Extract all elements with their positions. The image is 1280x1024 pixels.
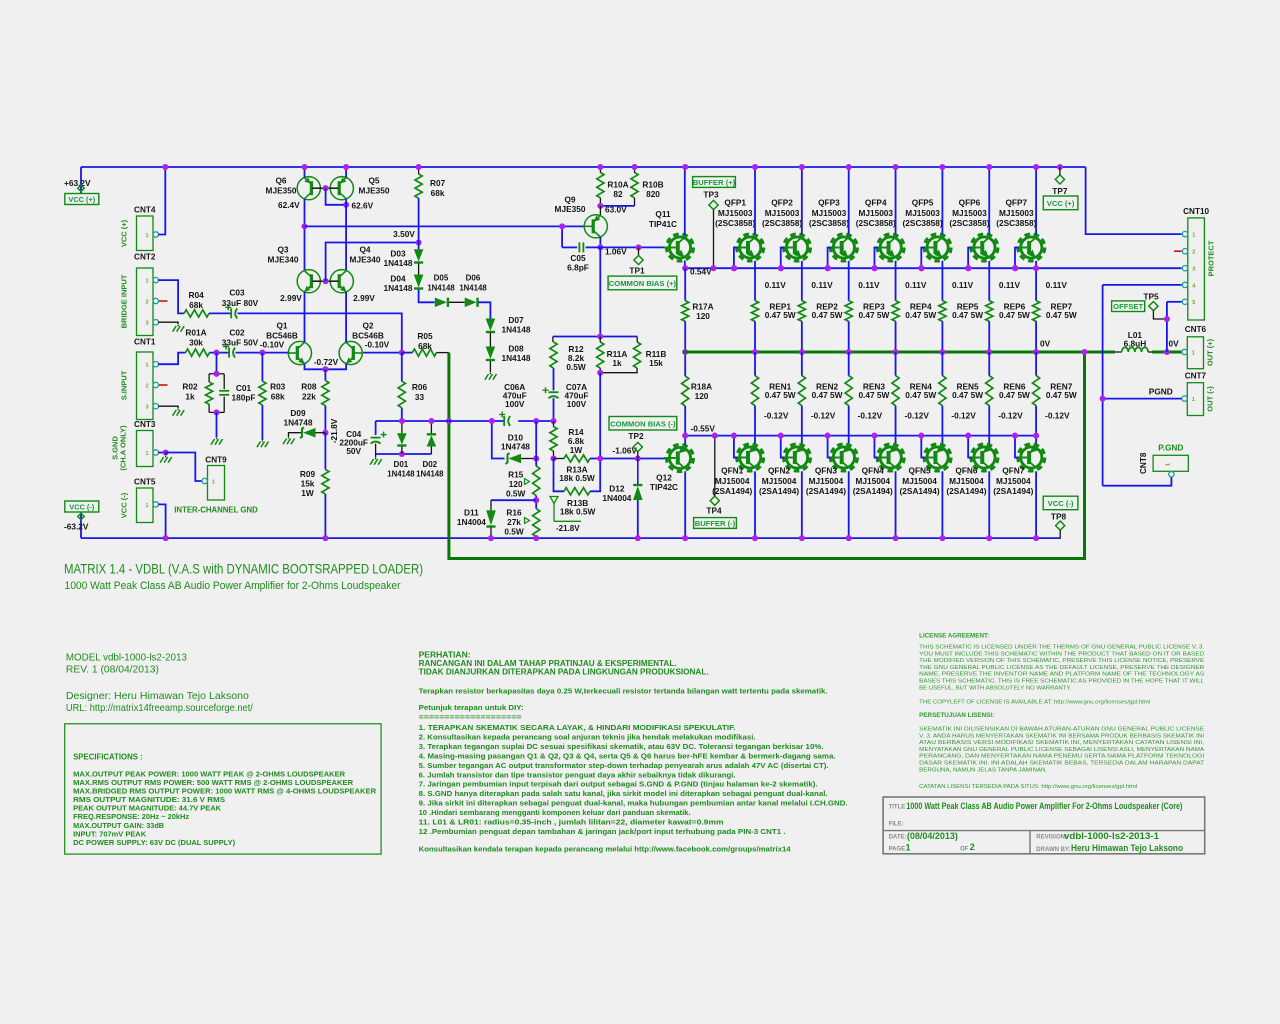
title block: [883, 797, 1205, 854]
svg-text:VCC (+): VCC (+): [68, 195, 95, 204]
ground R03: [257, 442, 261, 448]
svg-text:QFP3: QFP3: [818, 198, 840, 208]
junction D10 left: [489, 418, 495, 424]
resistor REP2: [798, 301, 805, 322]
svg-text:62.4V: 62.4V: [278, 200, 300, 210]
resistor REN4: [892, 376, 899, 406]
wire QFP5 base stub: [921, 248, 925, 269]
svg-text:0.11V: 0.11V: [858, 280, 880, 290]
wire QFP2 base stub: [781, 248, 785, 269]
svg-text:REVISION:: REVISION:: [1036, 835, 1067, 841]
svg-text:MJ15004: MJ15004: [949, 476, 984, 486]
svg-text:+63.2V: +63.2V: [64, 178, 91, 188]
svg-text:0.47 5W: 0.47 5W: [952, 310, 983, 320]
wire QFN2 collector: [801, 471, 803, 538]
svg-text:68k: 68k: [189, 300, 203, 310]
svg-text:1N4148: 1N4148: [501, 353, 530, 363]
capacitor C03: [209, 312, 231, 314]
resistor R13B: [564, 488, 590, 495]
junction CNT3 ground node: [163, 449, 169, 455]
wire REN2 to QFN2: [801, 406, 803, 445]
svg-text:15k: 15k: [301, 479, 315, 489]
junction QFP1 base: [731, 265, 737, 271]
svg-text:MJE350: MJE350: [555, 204, 586, 214]
junction QFN4 base: [871, 433, 877, 439]
wire QFP1 emitter: [754, 261, 756, 301]
svg-text:(2SA1494): (2SA1494): [712, 486, 752, 496]
svg-text:4. Masing-masing pasangan Q1 &: 4. Masing-masing pasangan Q1 & Q2, Q3 & …: [419, 751, 836, 760]
svg-text:V. 3. ANDA HARUS MENYERTAKAN: V. 3. ANDA HARUS MENYERTAKAN SKEMATIK IN…: [919, 733, 1204, 739]
junction Q9 emitter node: [597, 203, 603, 209]
svg-text:MJ15003: MJ15003: [999, 208, 1034, 218]
wire QFP2 emitter: [801, 261, 803, 301]
svg-text:D09: D09: [290, 408, 306, 418]
zener D10: [509, 454, 522, 464]
resistor R05: [412, 349, 436, 356]
svg-text:TITLE: TITLE: [889, 805, 906, 811]
connector CNT7: [1187, 383, 1203, 416]
svg-text:VCC (+): VCC (+): [1047, 199, 1075, 208]
capacitor C05: [562, 246, 577, 248]
svg-text:100V: 100V: [567, 399, 587, 409]
svg-text:-0.12V: -0.12V: [998, 411, 1023, 421]
svg-text:MJ15004: MJ15004: [809, 476, 844, 486]
wire QFN7 collector: [1035, 471, 1037, 538]
svg-text:33: 33: [415, 392, 425, 402]
wire QFN5 collector: [941, 471, 943, 538]
netlabel OFFSET: [1112, 301, 1145, 312]
svg-text:1N4148: 1N4148: [427, 284, 455, 293]
connector CNT9: [208, 466, 225, 501]
svg-text:D03: D03: [390, 249, 406, 259]
svg-text:1N4748: 1N4748: [283, 418, 312, 428]
testpoint TP7: [1055, 175, 1064, 184]
svg-text:18k 0.5W: 18k 0.5W: [560, 507, 596, 517]
svg-text:D05: D05: [434, 274, 449, 283]
capacitor C07A: [553, 368, 555, 390]
junction rail bottom col4: [893, 535, 899, 541]
svg-text:Konsultasikan kendala terapan: Konsultasikan kendala terapan kepada per…: [419, 844, 792, 853]
svg-text:(2SA1494): (2SA1494): [853, 486, 893, 496]
svg-text:6.8uH: 6.8uH: [1124, 338, 1147, 348]
svg-text:R18A: R18A: [691, 382, 712, 392]
wire QFP1 base stub: [734, 248, 738, 269]
junction R11A top: [597, 333, 603, 339]
wire VCC- bottom rail: [81, 537, 1061, 539]
svg-text:D12: D12: [609, 483, 625, 493]
svg-text:TIDAK DIANJURKAN DITERAPKAN PA: TIDAK DIANJURKAN DITERAPKAN PADA LINGKUN…: [419, 667, 709, 676]
wire QFN5 base stub: [921, 436, 925, 458]
ground CNT1 pin3: [173, 410, 177, 416]
svg-text:1: 1: [212, 479, 215, 485]
svg-text:1W: 1W: [570, 445, 583, 455]
svg-text:2.99V: 2.99V: [280, 293, 302, 303]
wire L01 to CNT6: [1152, 351, 1182, 354]
wire QFP4 emitter: [895, 261, 897, 301]
wire REN2 top: [801, 352, 803, 376]
svg-text:D02: D02: [422, 460, 437, 469]
svg-text:-21.8V: -21.8V: [329, 418, 339, 443]
svg-text:C01: C01: [236, 383, 252, 393]
wire R15 column: [535, 421, 537, 466]
svg-text:PAGE: PAGE: [889, 847, 906, 853]
wire mirror to Q9 base: [305, 225, 584, 227]
svg-text:1k: 1k: [612, 358, 622, 368]
wire R16 to rail: [535, 537, 537, 539]
svg-text:10 .Hindari sembarang menggant: 10 .Hindari sembarang mengganti komponen…: [419, 808, 691, 817]
ground CNT2 pin3: [173, 326, 177, 332]
junction mirror out: [301, 223, 307, 229]
junction rail bottom col3: [846, 535, 852, 541]
junction Q12 emitter bus: [682, 433, 688, 439]
junction column 6 0V: [986, 349, 992, 355]
resistor REP5: [939, 301, 946, 322]
wire R14 leads: [553, 421, 555, 427]
junction R11 bottom: [597, 370, 603, 376]
junction Q9 collector node: [597, 244, 603, 250]
svg-text:BUFFER (-): BUFFER (-): [695, 519, 736, 528]
junction rail top col1: [752, 164, 758, 170]
svg-text:-0.72V: -0.72V: [314, 357, 339, 367]
netlabel BUFFER +: [693, 177, 736, 188]
svg-text:NAME, PRESERVE THE INVENTOR: NAME, PRESERVE THE INVENTOR NAME AND PLA…: [919, 672, 1204, 678]
svg-text:VCC (-): VCC (-): [69, 503, 95, 512]
svg-text:120: 120: [696, 311, 710, 321]
resistor REN1: [751, 376, 758, 406]
svg-text:5. Sumber tegangan AC output t: 5. Sumber tegangan AC output transformat…: [419, 761, 829, 770]
svg-text:0.47 5W: 0.47 5W: [812, 390, 843, 400]
wire Q12 emitter: [684, 436, 686, 445]
wire REN4 top: [895, 352, 897, 376]
transistor QFN6: [974, 447, 995, 468]
svg-text:15k: 15k: [649, 358, 663, 368]
wire R06 bottom: [401, 408, 403, 421]
svg-text:QFN7: QFN7: [1002, 465, 1025, 475]
svg-text:FILE:: FILE:: [889, 822, 904, 828]
junction L01 out: [1164, 349, 1170, 355]
wire QFP3 emitter: [848, 261, 850, 301]
svg-text:3: 3: [145, 405, 148, 411]
testpoint TP4: [710, 496, 719, 505]
wire VAS to R11A: [599, 247, 601, 336]
wire CNT2 pin3 to ground: [158, 322, 178, 324]
junction TP4 bus: [712, 433, 718, 439]
power flag bottom-left: [78, 513, 84, 519]
svg-text:0.5W: 0.5W: [506, 489, 526, 499]
resistor REP3: [845, 301, 852, 322]
svg-text:1: 1: [1166, 463, 1172, 466]
wire QFP3 collector: [848, 167, 850, 234]
wire CNT4 pin1 to rail: [158, 167, 165, 235]
resistor R03: [259, 381, 266, 405]
svg-text:1: 1: [1192, 350, 1195, 356]
transistor Q9: [584, 215, 607, 238]
junction rail top col6: [986, 164, 992, 170]
transistor QFN1: [740, 447, 761, 468]
wire Q4 emitter to Q2 collector: [345, 292, 347, 342]
diode D05: [435, 298, 447, 308]
testpoint TP2: [633, 442, 642, 451]
svg-text:R10B: R10B: [642, 180, 663, 190]
svg-text:CNT8: CNT8: [1139, 452, 1148, 474]
junction TP5 net: [1164, 316, 1170, 322]
wire QFN6 base stub: [968, 436, 972, 458]
wire R11 node down: [599, 373, 601, 459]
svg-text:6.8pF: 6.8pF: [567, 263, 589, 273]
svg-text:THE COPYLEFT OF LICENSE IS AVA: THE COPYLEFT OF LICENSE IS AVAILABLE AT:…: [919, 699, 1150, 705]
svg-text:(2SC3858): (2SC3858): [856, 218, 896, 228]
svg-text:1: 1: [1192, 233, 1195, 239]
svg-text:0.11V: 0.11V: [765, 280, 787, 290]
svg-text:R04: R04: [188, 290, 204, 300]
svg-text:22k: 22k: [302, 392, 316, 402]
junction QFP5 base: [918, 265, 924, 271]
junction rail bottom col5: [939, 535, 945, 541]
wire REP1 to 0V bus: [754, 321, 756, 352]
svg-text:MJ15004: MJ15004: [715, 476, 750, 486]
svg-text:9. Jika sirkit ini diterapkan: 9. Jika sirkit ini diterapkan sebagai pe…: [419, 799, 848, 808]
wire QFP5 collector: [941, 167, 943, 234]
connector CNT10: [1188, 218, 1205, 320]
svg-text:PGND: PGND: [1149, 387, 1173, 397]
svg-text:8. S.GND hanya diterapkan pada: 8. S.GND hanya diterapkan pada salah sat…: [419, 789, 828, 798]
wire Q3 Q4 base tie: [312, 280, 338, 282]
transistor QFN3: [833, 447, 854, 468]
svg-text:Q9: Q9: [564, 195, 575, 205]
wire C01 ground stem: [216, 412, 218, 437]
wire QFP2 collector: [801, 167, 803, 234]
svg-text:0.11V: 0.11V: [905, 280, 927, 290]
wire QFP1 collector: [754, 167, 756, 234]
junction signal gnd at column: [550, 418, 556, 424]
svg-text:0.11V: 0.11V: [999, 280, 1021, 290]
wire REN6 top: [988, 352, 990, 376]
svg-text:68k: 68k: [431, 188, 445, 198]
svg-text:120: 120: [695, 391, 709, 401]
wire R10 join: [599, 198, 601, 206]
wire QFN6 collector: [988, 471, 990, 538]
svg-text:BRIDGE INPUT: BRIDGE INPUT: [120, 274, 129, 328]
transistor QFN4: [880, 447, 901, 468]
svg-text:(2SC3858): (2SC3858): [762, 218, 802, 228]
svg-text:MATRIX 1.4 - VDBL (V.A.S with: MATRIX 1.4 - VDBL (V.A.S with DYNAMIC BO…: [64, 561, 423, 577]
svg-text:2: 2: [145, 299, 148, 305]
svg-text:MJ15003: MJ15003: [952, 208, 987, 218]
svg-text:0V: 0V: [1169, 338, 1180, 348]
junction QFN5 base: [918, 433, 924, 439]
junction rail bottom col7: [1033, 535, 1039, 541]
junction column 1 0V: [752, 349, 758, 355]
junction QFN1 base: [731, 433, 737, 439]
svg-text:820: 820: [646, 189, 660, 199]
svg-text:REV. 1 (08/04/2013): REV. 1 (08/04/2013): [66, 664, 159, 676]
svg-text:3: 3: [1192, 267, 1195, 273]
svg-text:Petunjuk terapan untuk DIY:: Petunjuk terapan untuk DIY:: [419, 703, 524, 712]
netlabel COMMON BIAS +: [608, 276, 677, 290]
svg-text:CNT4: CNT4: [134, 206, 156, 215]
svg-text:(2SC3858): (2SC3858): [996, 218, 1036, 228]
ground R02 C01: [211, 439, 215, 445]
svg-text:0.47 5W: 0.47 5W: [812, 310, 843, 320]
wire D11 to R15 node: [491, 499, 536, 501]
transistor QFP5: [927, 237, 948, 258]
svg-text:(2SC3858): (2SC3858): [949, 218, 989, 228]
svg-text:D07: D07: [508, 315, 524, 325]
wire REN1 to QFN1: [754, 406, 756, 445]
junction QFP2 base: [778, 265, 784, 271]
wire R11B leads: [636, 337, 638, 343]
netlabel BUFFER -: [694, 518, 737, 529]
wire Q6 Q5 base tie: [312, 187, 338, 189]
wire D05 D06: [449, 301, 465, 303]
wire REN3 to QFN3: [848, 406, 850, 445]
svg-text:(2SC3858): (2SC3858): [903, 218, 943, 228]
svg-text:R01A: R01A: [185, 328, 206, 338]
resistor REP7: [1033, 301, 1040, 322]
svg-text:PROTECT: PROTECT: [1207, 240, 1216, 276]
transistor QFN5: [927, 447, 948, 468]
testpoint TP3: [709, 200, 718, 209]
svg-text:MJE350: MJE350: [359, 186, 390, 196]
svg-text:vdbl-1000-ls2-2013-1: vdbl-1000-ls2-2013-1: [1064, 831, 1159, 841]
junction dots top rail: [162, 164, 168, 170]
svg-text:0.47 5W: 0.47 5W: [1046, 310, 1077, 320]
svg-text:QFN4: QFN4: [862, 465, 885, 475]
svg-text:OUT (-): OUT (-): [1206, 386, 1215, 412]
svg-text:(2SC3858): (2SC3858): [715, 218, 755, 228]
wire D06 to D07: [479, 302, 491, 318]
junction 3.50V node: [416, 239, 422, 245]
inductor L01: [1115, 351, 1122, 353]
svg-text:0.47 5W: 0.47 5W: [999, 390, 1030, 400]
svg-text:(2SA1494): (2SA1494): [759, 486, 799, 496]
resistor REP1: [751, 301, 758, 322]
junction QFP7 emitter to protect: [1033, 265, 1039, 271]
transistor QFP6: [974, 237, 995, 258]
capacitor C01: [219, 390, 229, 392]
wire QFP6 emitter: [988, 261, 990, 301]
svg-text:(2SA1494): (2SA1494): [993, 486, 1033, 496]
svg-text:DRAWN BY:: DRAWN BY:: [1036, 847, 1070, 853]
resistor REN5: [939, 376, 946, 406]
svg-text:0.47 5W: 0.47 5W: [905, 310, 936, 320]
no-connect CNT2 pin2: [159, 300, 168, 302]
svg-text:MJE340: MJE340: [350, 255, 381, 265]
junction Q5 collector 62.6V: [343, 202, 349, 208]
svg-text:====================: ====================: [419, 712, 523, 721]
testpoint TP8: [1056, 521, 1065, 530]
svg-text:0.54V: 0.54V: [690, 267, 712, 277]
wire R17A leads: [684, 268, 686, 300]
wire C04 D01 D02 bottom: [376, 453, 432, 455]
svg-text:MJ15003: MJ15003: [765, 208, 800, 218]
wire VCC- left stub: [80, 512, 82, 538]
junction green corner: [1081, 349, 1087, 355]
transistor QFP1: [740, 237, 761, 258]
wire bridge input to Q2 base node: [238, 313, 402, 352]
svg-text:Q5: Q5: [368, 176, 379, 186]
junction TP1 node: [635, 244, 641, 250]
wire REN3 top: [848, 352, 850, 376]
wire QFN1 base stub: [734, 436, 738, 458]
wire QFN3 collector: [848, 471, 850, 538]
wire REP3 to 0V bus: [848, 321, 850, 352]
svg-text:27k: 27k: [507, 517, 521, 527]
svg-text:OF: OF: [960, 847, 969, 853]
svg-text:0.47 5W: 0.47 5W: [858, 310, 889, 320]
wire R08 to D09 node: [324, 406, 326, 433]
svg-text:0.47 5W: 0.47 5W: [1046, 390, 1077, 400]
svg-text:0.47 5W: 0.47 5W: [905, 390, 936, 400]
svg-text:OUT (+): OUT (+): [1206, 338, 1215, 366]
svg-text:0.5W: 0.5W: [504, 527, 524, 537]
svg-text:MJ15003: MJ15003: [905, 208, 940, 218]
wire Q2 base: [363, 352, 402, 354]
svg-text:D06: D06: [466, 274, 481, 283]
svg-text:MJ15003: MJ15003: [812, 208, 847, 218]
resistor R17A: [682, 301, 689, 322]
wire CNT5 pin1 to rail: [158, 504, 165, 538]
svg-text:18k 0.5W: 18k 0.5W: [559, 473, 595, 483]
svg-text:QFN1: QFN1: [721, 465, 744, 475]
wire REN5 top: [941, 352, 943, 376]
bus COMMON BIAS + 0.54V: [685, 267, 1181, 269]
svg-text:CNT3: CNT3: [134, 420, 156, 429]
svg-text:Q3: Q3: [277, 245, 288, 255]
wire R18A leads: [684, 352, 686, 376]
svg-text:QFP4: QFP4: [865, 198, 887, 208]
junction QFN6 base: [965, 433, 971, 439]
svg-text:12 .Pembumian penguat depan ta: 12 .Pembumian penguat depan tambahan & j…: [419, 827, 786, 836]
svg-text:Q6: Q6: [275, 176, 286, 186]
resistor R14: [550, 427, 557, 451]
wire REP6 to 0V bus: [988, 321, 990, 352]
svg-text:2. Konsultasikan kepada peranc: 2. Konsultasikan kepada perancang soal a…: [419, 732, 756, 741]
wire -1.06V row: [590, 458, 667, 460]
junction R02 bottom: [213, 409, 219, 415]
svg-text:-21.8V: -21.8V: [556, 524, 580, 533]
svg-text:-0.12V: -0.12V: [764, 411, 789, 421]
wire QFN3 base stub: [828, 436, 832, 458]
svg-text:-0.12V: -0.12V: [905, 411, 930, 421]
transistor Q2: [339, 341, 362, 364]
svg-text:(08/04/2013): (08/04/2013): [907, 831, 958, 841]
svg-text:BUFFER (+): BUFFER (+): [693, 178, 736, 187]
junction D12 node: [635, 455, 641, 461]
wire REN1 top: [754, 352, 756, 376]
resistor R11B: [634, 342, 641, 368]
transistor QFN7: [1021, 447, 1042, 468]
capacitor C02: [228, 348, 230, 358]
wire R06 top: [401, 353, 403, 382]
svg-text:THE GNU GENERAL PUBLIC LIC: THE GNU GENERAL PUBLIC LICENSE AS THE DE…: [919, 665, 1204, 671]
svg-text:-0.12V: -0.12V: [811, 411, 836, 421]
power flag -21.8V: [550, 497, 558, 504]
wire R07 bottom to D03: [418, 198, 420, 249]
resistor R18A: [682, 376, 689, 406]
svg-text:INTER-CHANNEL GND: INTER-CHANNEL GND: [174, 506, 258, 515]
svg-text:1000 Watt Peak Class AB Audio: 1000 Watt Peak Class AB Audio Power Ampl…: [65, 580, 401, 592]
svg-text:1: 1: [906, 843, 911, 853]
svg-text:QFP7: QFP7: [1005, 198, 1027, 208]
connector CNT2: [137, 268, 154, 336]
ground C04: [370, 459, 374, 465]
wire Q6 emitter to rail: [304, 167, 306, 177]
svg-text:0.11V: 0.11V: [811, 280, 833, 290]
svg-text:QFN5: QFN5: [909, 465, 932, 475]
wire emitters to R08: [324, 369, 326, 380]
svg-text:5: 5: [1192, 300, 1195, 306]
